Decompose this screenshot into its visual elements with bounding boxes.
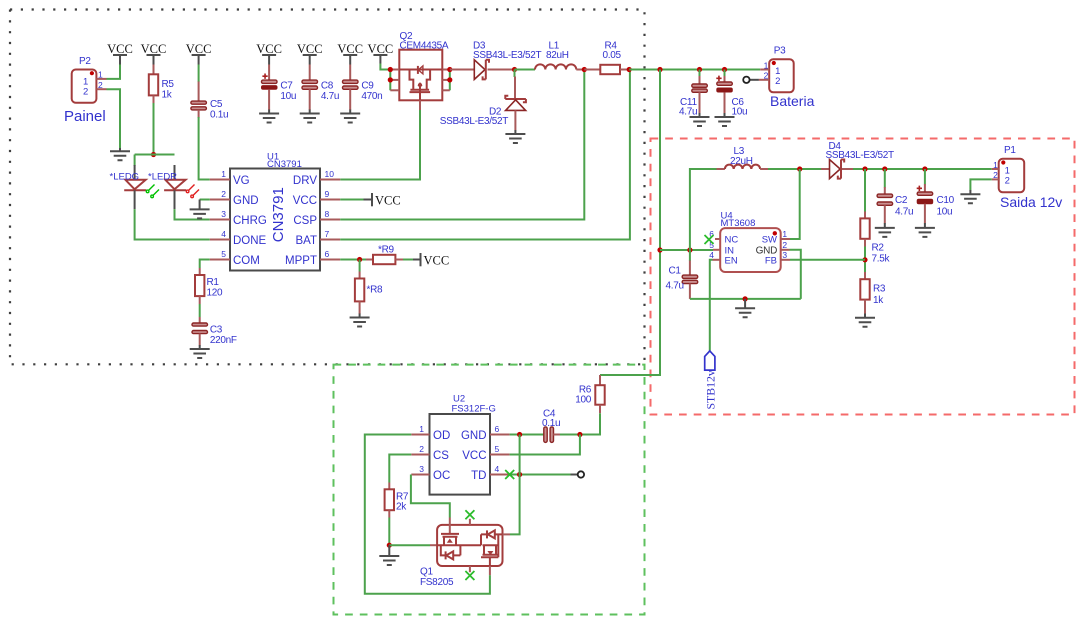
wire U4 EN to STB12v flag [710, 260, 713, 351]
power flag VCC (C7) [256, 42, 282, 64]
svg-text:2: 2 [764, 71, 769, 81]
junction MPPT divider [357, 257, 362, 262]
wire P2 pin2 to ground [107, 89, 121, 148]
svg-text:1k: 1k [873, 295, 884, 306]
svg-text:2: 2 [993, 170, 998, 180]
wire D4 to P1 [853, 168, 992, 170]
svg-text:*LEDG: *LEDG [110, 171, 140, 182]
no-connect X (U2 TD) [505, 470, 514, 479]
svg-text:P3: P3 [774, 45, 786, 56]
wire U2 VCC to node [510, 435, 580, 455]
svg-text:4.7u: 4.7u [895, 207, 913, 218]
inductor L1 82uH [535, 41, 584, 70]
svg-text:C9: C9 [361, 81, 374, 92]
junction C4/VCC/R6 [577, 432, 582, 437]
junction C11 [697, 67, 702, 72]
no-connect X (U4 NC) [705, 235, 714, 244]
wire U2 CS to R7 [389, 455, 411, 483]
svg-text:R5: R5 [162, 79, 175, 90]
wire R6 to C4/GND node [580, 413, 600, 434]
diode D3 SSB43L-E3/52T [473, 41, 542, 80]
power flag VCC (C5) [186, 42, 212, 64]
wire LEDR cathode to U1 CHRG [175, 209, 210, 219]
svg-text:1: 1 [764, 60, 769, 70]
svg-text:4: 4 [495, 464, 500, 474]
capacitor C5 0.1u [191, 65, 228, 121]
capacitor C1 4.7u [666, 250, 698, 299]
capacitor C6 10u (polarized) [716, 70, 747, 118]
wire R7 to Q1 source node [388, 518, 390, 546]
svg-text:C2: C2 [895, 195, 908, 206]
svg-text:VCC: VCC [375, 194, 401, 208]
transistor Q2 CEM4435A [388, 31, 453, 100]
junction R2 [862, 166, 867, 171]
power flag VCC (C9) [337, 42, 363, 64]
svg-text:4.7u: 4.7u [679, 107, 697, 118]
svg-text:2: 2 [98, 80, 103, 90]
diode D4 SSB43L-E3/52T [821, 141, 894, 179]
global label STB12v [704, 351, 718, 410]
ground (C8) [300, 110, 320, 123]
resistor R4 0.05 [584, 41, 629, 75]
svg-text:4: 4 [221, 229, 226, 239]
svg-text:STB12v: STB12v [704, 370, 718, 409]
junction C6 [722, 67, 727, 72]
wire U4 GND to bottom rail [790, 250, 801, 299]
junction SW node [797, 166, 802, 171]
diode D2 SSB43L-E3/52T [440, 70, 526, 131]
svg-text:10u: 10u [280, 91, 296, 102]
svg-text:R1: R1 [207, 277, 220, 288]
svg-text:VCC: VCC [256, 42, 282, 56]
svg-text:R3: R3 [873, 284, 886, 295]
junction U2 GND [517, 432, 522, 437]
ground (C6) [715, 113, 735, 126]
resistor R1 120 [195, 260, 223, 305]
ground (D2) [505, 130, 525, 143]
svg-text:2: 2 [775, 76, 780, 87]
wire L3 to D4 [768, 168, 821, 170]
power flag VCC (Q2 source) [368, 42, 394, 63]
svg-text:CN3791: CN3791 [270, 187, 287, 242]
connector P1 Saida 12v [992, 145, 1063, 210]
resistor R9 [366, 244, 403, 264]
svg-text:2k: 2k [396, 502, 407, 513]
capacitor C3 220nF [192, 317, 237, 346]
svg-text:10u: 10u [732, 107, 748, 118]
wire bottom rail (C1 to U4 GND) [690, 298, 801, 300]
svg-text:VCC: VCC [368, 42, 394, 56]
ground (C7) [259, 110, 279, 123]
svg-text:1: 1 [98, 70, 103, 80]
wire boost input to L3 / U4 IN [660, 249, 713, 251]
LED *LEDG [110, 155, 160, 210]
wire U4 SW to L3/D4 [790, 169, 800, 239]
svg-text:P1: P1 [1004, 145, 1016, 156]
svg-text:Painel: Painel [64, 108, 106, 125]
svg-text:FB: FB [765, 255, 777, 266]
svg-text:9: 9 [325, 189, 330, 199]
junction TD/gate [517, 472, 522, 477]
wire U2 GND node to C4 [510, 434, 546, 436]
svg-text:OC: OC [433, 470, 450, 482]
svg-text:FS8205: FS8205 [420, 577, 454, 588]
svg-text:C5: C5 [210, 99, 223, 110]
svg-text:VCC: VCC [107, 42, 133, 56]
no-connect X (Q1 bottom) [465, 571, 474, 580]
junction R4/BAT [627, 67, 632, 72]
svg-text:2: 2 [1005, 176, 1010, 187]
svg-text:6: 6 [495, 424, 500, 434]
transistor Q1 FS8205 (dual MOSFET) [420, 518, 510, 588]
connector P2 [64, 56, 107, 125]
wire Q2 drain to D3 [450, 69, 474, 71]
resistor R5 1k [149, 65, 175, 104]
svg-text:0.05: 0.05 [603, 50, 622, 61]
svg-text:VCC: VCC [337, 42, 363, 56]
svg-text:5: 5 [495, 444, 500, 454]
wire U1 BAT to battery rail [340, 70, 630, 240]
junction boost input node [657, 247, 662, 252]
wire U2 OC to Q1 left gate [411, 475, 450, 518]
junction R7/Q1/ground [387, 543, 392, 548]
wire R1 to C3 [199, 304, 201, 317]
wire U2 TD to open circle [510, 474, 578, 476]
svg-text:SSB43L-E3/52T: SSB43L-E3/52T [826, 150, 895, 161]
svg-text:VCC: VCC [293, 195, 317, 207]
svg-text:C10: C10 [937, 195, 955, 206]
svg-text:C8: C8 [321, 81, 334, 92]
svg-text:1: 1 [419, 424, 424, 434]
connector P3 Bateria [759, 45, 815, 108]
svg-text:82uH: 82uH [546, 50, 569, 61]
red dashed section border (12V boost output) [651, 139, 1075, 415]
capacitor C11 4.7u [679, 70, 707, 118]
power flag VCC (R9) [421, 253, 450, 268]
svg-text:Bateria: Bateria [770, 93, 815, 109]
wire U1 VCC pin9 to flag [340, 199, 372, 201]
svg-text:EN: EN [725, 255, 738, 266]
svg-text:*R8: *R8 [367, 284, 384, 295]
svg-text:VCC: VCC [424, 254, 450, 268]
svg-text:*LEDR: *LEDR [148, 171, 177, 182]
power flag VCC (R5) [141, 42, 167, 64]
resistor R8 [355, 260, 383, 315]
svg-text:4.7u: 4.7u [321, 91, 339, 102]
svg-text:0.1u: 0.1u [210, 110, 228, 121]
capacitor C10 10u (polarized) [917, 169, 955, 224]
ground (R8) [350, 314, 370, 327]
IC U4 MT3608 [709, 210, 790, 272]
resistor R3 1k [860, 272, 886, 314]
capacitor C7 10u (polarized) [262, 65, 297, 111]
svg-text:DONE: DONE [233, 235, 267, 247]
svg-text:2: 2 [782, 240, 787, 250]
svg-text:7.5k: 7.5k [872, 254, 891, 265]
svg-text:VCC: VCC [462, 450, 486, 462]
ground (Q1/R7) [379, 545, 399, 565]
open connection circle (P3 pin2) [743, 77, 759, 83]
LED *LEDR [148, 165, 199, 209]
junction C1 [687, 247, 692, 252]
capacitor C8 4.7u [302, 65, 339, 111]
wire C4 right to R6 bottom node [560, 434, 600, 436]
svg-text:VCC: VCC [141, 42, 167, 56]
svg-text:470n: 470n [361, 91, 382, 102]
wire node to Q1 left source [389, 544, 437, 546]
wire VCC to Q2 [380, 64, 390, 70]
junction L1/R4/CSP [582, 67, 587, 72]
capacitor C9 470n [343, 65, 383, 111]
svg-text:4.7u: 4.7u [666, 281, 684, 292]
svg-text:C3: C3 [210, 325, 223, 336]
svg-text:R2: R2 [872, 243, 885, 254]
ground (C11) [690, 113, 710, 126]
svg-text:GND: GND [233, 195, 259, 207]
svg-text:MPPT: MPPT [285, 255, 317, 267]
IC U2 FS312F-G [411, 394, 509, 495]
junction LED anodes [151, 152, 156, 157]
svg-text:VG: VG [233, 175, 250, 187]
svg-text:P2: P2 [79, 56, 91, 67]
svg-text:SW: SW [762, 235, 777, 246]
wire R5 to LED junction [153, 103, 155, 155]
wire LEDG cathode to U1 DONE [135, 209, 210, 239]
svg-text:2: 2 [83, 87, 88, 98]
svg-text:Saida 12v: Saida 12v [1000, 194, 1062, 210]
ground (R3) [855, 314, 875, 327]
svg-text:3: 3 [419, 464, 424, 474]
svg-text:7: 7 [325, 229, 330, 239]
inductor L3 22uH [717, 146, 769, 169]
ground (C2) [875, 223, 895, 237]
svg-text:CSP: CSP [293, 215, 317, 227]
resistor R7 2k [385, 483, 409, 518]
svg-text:C1: C1 [669, 266, 682, 277]
svg-text:VCC: VCC [186, 42, 212, 56]
svg-text:VCC: VCC [297, 42, 323, 56]
wire R9 to VCC flag [403, 259, 421, 261]
svg-text:BAT: BAT [295, 235, 317, 247]
svg-text:SSB43L-E3/52T: SSB43L-E3/52T [473, 50, 542, 61]
ground (C3) [190, 345, 210, 358]
svg-text:FS312F-G: FS312F-G [452, 403, 496, 414]
wire battery rail down into boost section [600, 70, 660, 376]
svg-text:GND: GND [461, 430, 487, 442]
wire C1 branch to L3 [690, 169, 717, 250]
svg-text:6: 6 [325, 249, 330, 259]
svg-text:220nF: 220nF [210, 335, 237, 346]
resistor R6 100 [575, 375, 604, 413]
wire U1 MPPT node [340, 259, 366, 261]
ground (C10) [915, 223, 935, 237]
svg-text:TD: TD [471, 470, 486, 482]
junction C2 [882, 166, 887, 171]
junction bottom-rail ground [743, 296, 748, 301]
power flag VCC (C8) [297, 42, 323, 64]
wire GND pin down to Q1 right gate [510, 435, 520, 535]
wire U4 FB to divider [790, 259, 865, 261]
svg-text:10: 10 [325, 169, 335, 179]
svg-text:NC: NC [725, 235, 739, 246]
junction FB divider [862, 257, 867, 262]
wire P1 pin2 to ground [970, 179, 991, 190]
svg-text:3: 3 [782, 250, 787, 260]
wire P2 pin1 to VCC [107, 64, 121, 79]
svg-text:2: 2 [221, 189, 226, 199]
junction C10 [922, 166, 927, 171]
svg-text:4: 4 [709, 250, 714, 260]
capacitor C4 0.1u [542, 408, 560, 442]
no-connect X (Q1 top) [465, 510, 474, 519]
wire LED anode rail [135, 154, 175, 156]
power flag VCC (P2) [107, 42, 133, 64]
svg-text:C7: C7 [280, 81, 293, 92]
svg-text:1k: 1k [162, 89, 173, 100]
svg-text:CHRG: CHRG [233, 215, 267, 227]
svg-text:3: 3 [221, 209, 226, 219]
op-amp U1 CN3791 [210, 151, 340, 270]
ground (P1) [960, 190, 980, 203]
wire C5 to U1 VG [199, 117, 210, 180]
svg-text:1: 1 [221, 169, 226, 179]
black dotted section border (charger) [10, 10, 645, 365]
wire battery rail to P3 [629, 69, 760, 71]
wire U1 GND pin2 [200, 199, 210, 201]
ground (C9) [340, 110, 360, 123]
svg-text:CS: CS [433, 450, 449, 462]
svg-text:*R9: *R9 [378, 244, 395, 255]
open connection circle (TD) [578, 471, 584, 477]
junction boost feed [657, 67, 662, 72]
svg-text:2: 2 [419, 444, 424, 454]
resistor R2 7.5k [860, 169, 890, 265]
ground (U4) [735, 299, 755, 317]
wire junction to L1 [515, 69, 536, 71]
svg-text:5: 5 [221, 249, 226, 259]
wire Q2 gate to U1 DRV [340, 100, 420, 179]
svg-text:1: 1 [993, 160, 998, 170]
svg-text:8: 8 [325, 209, 330, 219]
ground (P2) [110, 148, 130, 160]
junction D3/D2/L1 [512, 67, 517, 72]
svg-text:1: 1 [782, 229, 787, 239]
svg-text:DRV: DRV [293, 175, 317, 187]
svg-text:COM: COM [233, 255, 260, 267]
svg-text:120: 120 [207, 288, 224, 299]
svg-text:SSB43L-E3/52T: SSB43L-E3/52T [440, 116, 509, 127]
svg-text:10u: 10u [937, 207, 953, 218]
power flag VCC (U1 pin9) [372, 193, 401, 208]
wire U1 CSP to R4 left [340, 70, 584, 220]
green dashed section border (battery protection) [334, 365, 645, 615]
capacitor C2 4.7u [877, 169, 913, 224]
svg-text:OD: OD [433, 430, 450, 442]
wire R2 to R3 node [864, 247, 866, 273]
ground (U1 GND) [190, 200, 210, 219]
wire U2 OD loop to Q1 source [365, 435, 490, 594]
svg-text:100: 100 [575, 395, 592, 406]
